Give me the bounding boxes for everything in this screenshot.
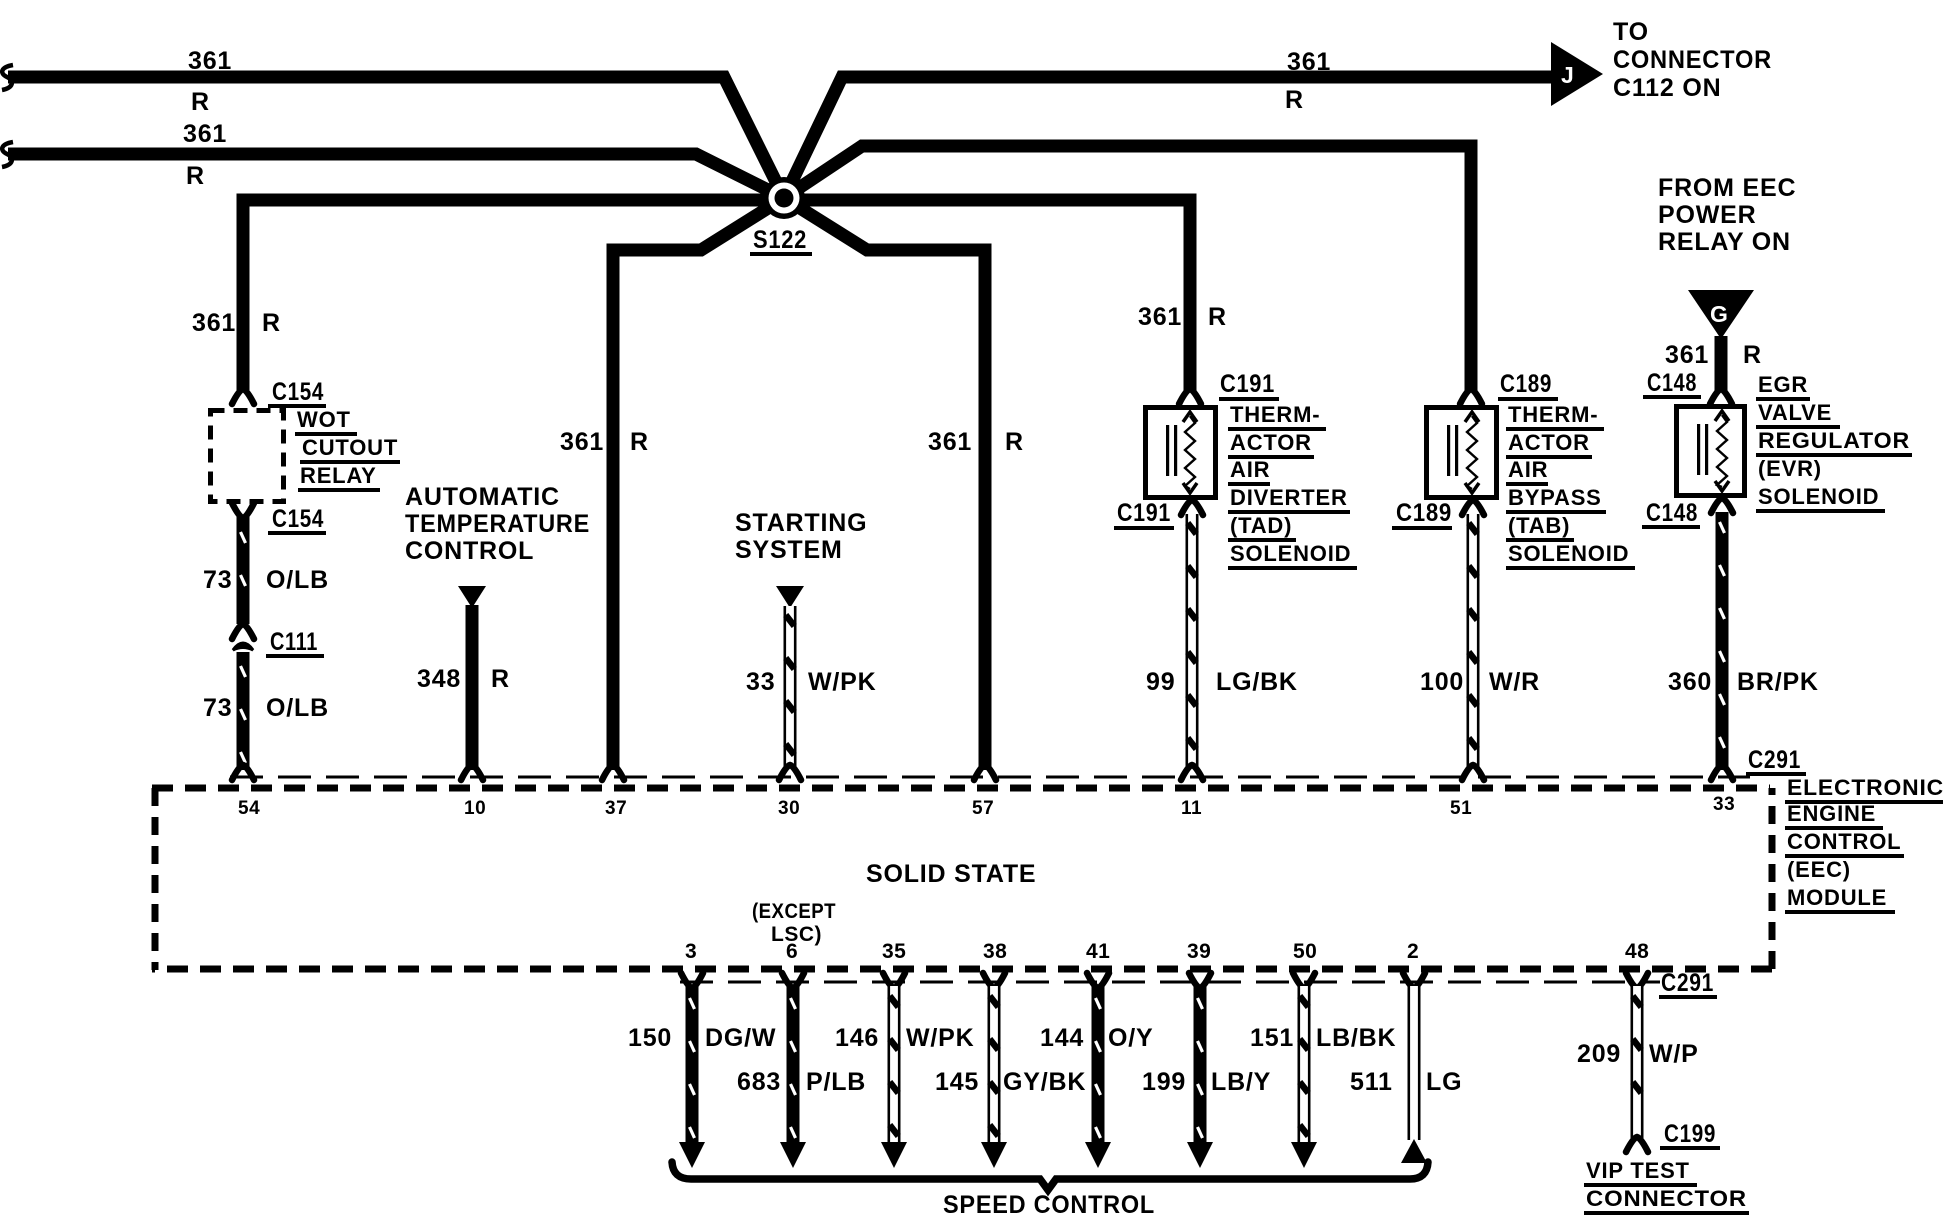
svg-text:AIR: AIR bbox=[1508, 457, 1548, 482]
connector C154 lower half (bottom of WOT relay) bbox=[232, 503, 254, 518]
svg-text:EGR: EGR bbox=[1758, 372, 1808, 397]
speed control brace bbox=[672, 1162, 1428, 1190]
svg-text:R: R bbox=[1285, 86, 1304, 114]
svg-text:R: R bbox=[262, 309, 281, 337]
svg-text:R: R bbox=[186, 162, 205, 190]
svg-text:R: R bbox=[630, 428, 649, 456]
svg-text:ACTOR: ACTOR bbox=[1230, 430, 1312, 455]
wire 361 R from S122 to WOT cutout relay bbox=[243, 200, 784, 390]
svg-text:360: 360 bbox=[1668, 668, 1712, 696]
svg-text:C148: C148 bbox=[1647, 369, 1697, 397]
svg-text:AIR: AIR bbox=[1230, 457, 1270, 482]
svg-text:30: 30 bbox=[778, 798, 800, 819]
svg-text:BYPASS: BYPASS bbox=[1508, 485, 1602, 510]
thermactor air bypass TAB solenoid box bbox=[1427, 408, 1497, 498]
connector at EEC pin 57 bbox=[974, 765, 996, 780]
svg-text:AUTOMATIC: AUTOMATIC bbox=[405, 483, 560, 511]
feed triangle from automatic temperature control bbox=[458, 586, 486, 608]
wire 361 R horizontal upper feed into splice S122 bbox=[8, 77, 784, 198]
arrow J to connector C112 bbox=[1551, 42, 1603, 106]
connector at EEC pin 35 bbox=[883, 973, 905, 988]
connector at EEC pin 38 bbox=[983, 973, 1005, 988]
EEC module boundary thin connector line (top row C291) bbox=[230, 776, 1750, 779]
svg-text:CUTOUT: CUTOUT bbox=[302, 435, 398, 460]
svg-text:361: 361 bbox=[1138, 303, 1182, 331]
EGR valve regulator EVR solenoid box bbox=[1677, 407, 1745, 496]
connector at EEC pin 2 bbox=[1403, 973, 1425, 988]
svg-text:CONTROL: CONTROL bbox=[405, 537, 534, 565]
connector at EEC pin 39 bbox=[1189, 973, 1211, 988]
svg-text:C291: C291 bbox=[1748, 746, 1801, 774]
svg-text:99: 99 bbox=[1146, 668, 1175, 696]
connector C111 (in-line) bbox=[232, 624, 254, 639]
wire 145 GY/BK from EEC pin 38 to speed control bbox=[988, 986, 1001, 1144]
power feed triangle G from EEC power relay bbox=[1688, 290, 1754, 339]
connector at EEC pin 6 bbox=[782, 973, 804, 988]
splice S122 junction dot bbox=[763, 177, 805, 219]
connector at EEC pin 54 bbox=[232, 765, 254, 780]
svg-text:C111: C111 bbox=[270, 628, 318, 656]
svg-text:361: 361 bbox=[183, 120, 227, 148]
svg-text:STARTING: STARTING bbox=[735, 509, 867, 537]
svg-text:C191: C191 bbox=[1220, 370, 1275, 398]
svg-text:150: 150 bbox=[628, 1024, 672, 1052]
wire 146 W/PK from EEC pin 35 to speed control bbox=[888, 986, 901, 1144]
svg-text:J: J bbox=[1561, 62, 1574, 88]
connector at EEC pin 51 bbox=[1462, 765, 1484, 780]
arrow end of wire 511 bbox=[1401, 1139, 1427, 1163]
wire 683 P/LB from EEC pin 6 to speed control bbox=[787, 986, 800, 1144]
connector at EEC pin 10 bbox=[461, 765, 483, 780]
svg-text:C189: C189 bbox=[1500, 370, 1552, 398]
connector C191 lower half (bottom of TAD solenoid) bbox=[1181, 500, 1203, 515]
wire 511 LG from EEC pin 2 to speed control bbox=[1408, 986, 1421, 1140]
svg-text:35: 35 bbox=[882, 940, 906, 963]
arrow end of wire 144 bbox=[1085, 1142, 1111, 1168]
svg-text:39: 39 bbox=[1187, 940, 1211, 963]
connector C154 upper half (top of WOT relay) bbox=[232, 389, 254, 404]
svg-text:O/LB: O/LB bbox=[266, 566, 329, 594]
svg-text:O/Y: O/Y bbox=[1108, 1024, 1153, 1052]
svg-text:FROM EEC: FROM EEC bbox=[1658, 174, 1796, 202]
wire 361 R from S122 to EEC pin 57 bbox=[784, 198, 985, 770]
svg-text:511: 511 bbox=[1350, 1068, 1393, 1096]
wire 361 R from S122 to EEC pin 37 bbox=[613, 198, 784, 770]
svg-text:CONTROL: CONTROL bbox=[1787, 829, 1901, 854]
svg-text:R: R bbox=[191, 88, 210, 116]
wire 73 O/LB from C111 to EEC pin 54 bbox=[237, 652, 250, 770]
svg-text:WOT: WOT bbox=[297, 407, 351, 432]
wire 361 R from S122 to connector C112 arrow bbox=[784, 77, 1551, 198]
svg-text:199: 199 bbox=[1142, 1068, 1186, 1096]
svg-text:SOLENOID: SOLENOID bbox=[1230, 541, 1351, 566]
feed triangle from starting system bbox=[776, 586, 804, 608]
svg-text:W/PK: W/PK bbox=[906, 1024, 974, 1052]
wire 150 DG/W from EEC pin 3 to speed control bbox=[686, 986, 699, 1144]
connector at EEC pin 3 bbox=[681, 973, 703, 988]
svg-text:C154: C154 bbox=[272, 505, 324, 533]
wire 209 W/P from EEC pin 48 to VIP test connector bbox=[1631, 986, 1644, 1138]
svg-text:SOLENOID: SOLENOID bbox=[1758, 484, 1879, 509]
connector at EEC pin 50 bbox=[1293, 973, 1315, 988]
wire 144 O/Y from EEC pin 41 to speed control bbox=[1092, 986, 1105, 1144]
arrow end of wire 150 bbox=[679, 1142, 705, 1168]
wire 99 LG/BK from TAD solenoid to EEC pin 11 bbox=[1186, 514, 1199, 770]
svg-text:P/LB: P/LB bbox=[806, 1068, 866, 1096]
svg-text:51: 51 bbox=[1450, 798, 1472, 819]
svg-text:209: 209 bbox=[1577, 1040, 1621, 1068]
connector at EEC pin 48 (C291) bbox=[1626, 973, 1648, 988]
svg-text:SYSTEM: SYSTEM bbox=[735, 536, 843, 564]
svg-text:R: R bbox=[1208, 303, 1227, 331]
svg-text:SOLID STATE: SOLID STATE bbox=[866, 860, 1036, 888]
wire 361 R horizontal second feed into splice S122 bbox=[8, 154, 784, 198]
wire 361 R from power relay triangle to EVR solenoid bbox=[1715, 336, 1728, 392]
connector at EEC pin 41 bbox=[1087, 973, 1109, 988]
svg-text:3: 3 bbox=[685, 940, 697, 963]
svg-text:LG: LG bbox=[1426, 1068, 1462, 1096]
svg-text:THERM-: THERM- bbox=[1230, 402, 1320, 427]
svg-text:POWER: POWER bbox=[1658, 201, 1756, 229]
svg-text:VIP TEST: VIP TEST bbox=[1586, 1158, 1690, 1183]
svg-text:C291: C291 bbox=[1661, 969, 1714, 997]
svg-text:41: 41 bbox=[1086, 940, 1110, 963]
wire 73 O/LB from WOT relay to C111 bbox=[237, 516, 250, 624]
EEC module dashed box bbox=[152, 785, 1770, 792]
WOT cutout relay dashed box bbox=[211, 411, 284, 502]
svg-text:GY/BK: GY/BK bbox=[1003, 1068, 1086, 1096]
svg-text:C154: C154 bbox=[272, 378, 324, 406]
connector C199 at VIP test connector bbox=[1626, 1137, 1648, 1152]
svg-text:6: 6 bbox=[786, 940, 798, 963]
svg-text:CONNECTOR: CONNECTOR bbox=[1613, 46, 1772, 74]
thermactor air diverter TAD solenoid box bbox=[1146, 408, 1216, 498]
svg-text:RELAY ON: RELAY ON bbox=[1658, 228, 1791, 256]
wire 360 BR/PK from EVR solenoid to EEC pin 33 bbox=[1716, 512, 1729, 770]
svg-text:W/R: W/R bbox=[1489, 668, 1540, 696]
svg-text:DG/W: DG/W bbox=[705, 1024, 776, 1052]
svg-text:ELECTRONIC: ELECTRONIC bbox=[1787, 775, 1944, 800]
svg-text:R: R bbox=[491, 665, 510, 693]
svg-text:LG/BK: LG/BK bbox=[1216, 668, 1298, 696]
svg-text:C112 ON: C112 ON bbox=[1613, 74, 1721, 102]
svg-text:361: 361 bbox=[1287, 48, 1331, 76]
svg-text:(TAB): (TAB) bbox=[1508, 513, 1570, 538]
svg-text:33: 33 bbox=[746, 668, 775, 696]
svg-text:361: 361 bbox=[188, 47, 232, 75]
svg-text:SPEED CONTROL: SPEED CONTROL bbox=[943, 1191, 1155, 1216]
svg-text:145: 145 bbox=[935, 1068, 979, 1096]
svg-text:(EXCEPT: (EXCEPT bbox=[752, 900, 836, 923]
svg-text:146: 146 bbox=[835, 1024, 879, 1052]
svg-text:VALVE: VALVE bbox=[1758, 400, 1832, 425]
arrow end of wire 145 bbox=[981, 1142, 1007, 1168]
arrow end of wire 151 bbox=[1291, 1142, 1317, 1168]
svg-text:38: 38 bbox=[983, 940, 1007, 963]
svg-text:11: 11 bbox=[1181, 798, 1202, 819]
svg-text:R: R bbox=[1005, 428, 1024, 456]
svg-text:TO: TO bbox=[1613, 18, 1649, 46]
connector at EEC pin 37 bbox=[602, 765, 624, 780]
svg-text:361: 361 bbox=[560, 428, 604, 456]
svg-text:TEMPERATURE: TEMPERATURE bbox=[405, 510, 590, 538]
svg-text:LB/Y: LB/Y bbox=[1211, 1068, 1271, 1096]
arrow end of wire 146 bbox=[881, 1142, 907, 1168]
connector at EEC pin 30 bbox=[779, 765, 801, 780]
wire 361 R from S122 to TAB solenoid bbox=[784, 146, 1471, 392]
svg-text:348: 348 bbox=[417, 665, 461, 693]
connector C148 lower half (bottom of EVR solenoid) bbox=[1711, 498, 1733, 513]
svg-text:(EVR): (EVR) bbox=[1758, 456, 1822, 481]
svg-text:151: 151 bbox=[1250, 1024, 1294, 1052]
connector at EEC pin 11 bbox=[1181, 765, 1203, 780]
svg-text:683: 683 bbox=[737, 1068, 781, 1096]
svg-text:ACTOR: ACTOR bbox=[1508, 430, 1590, 455]
svg-text:361: 361 bbox=[1665, 341, 1709, 369]
wire 100 W/R from TAB solenoid to EEC pin 51 bbox=[1467, 514, 1480, 770]
svg-text:73: 73 bbox=[203, 566, 232, 594]
svg-text:C148: C148 bbox=[1646, 499, 1698, 527]
svg-text:54: 54 bbox=[238, 798, 260, 819]
svg-text:(TAD): (TAD) bbox=[1230, 513, 1292, 538]
svg-text:2: 2 bbox=[1407, 940, 1419, 963]
svg-text:REGULATOR: REGULATOR bbox=[1758, 428, 1910, 453]
svg-text:W/PK: W/PK bbox=[808, 668, 876, 696]
svg-text:THERM-: THERM- bbox=[1508, 402, 1598, 427]
svg-text:CONNECTOR: CONNECTOR bbox=[1586, 1186, 1747, 1211]
svg-text:100: 100 bbox=[1420, 668, 1464, 696]
wire break symbol on feed wire 361 (upper left) bbox=[2, 65, 13, 90]
svg-text:144: 144 bbox=[1040, 1024, 1084, 1052]
svg-text:10: 10 bbox=[464, 798, 486, 819]
svg-text:SOLENOID: SOLENOID bbox=[1508, 541, 1629, 566]
arrow end of wire 683 bbox=[780, 1142, 806, 1168]
wire 199 LB/Y from EEC pin 39 to speed control bbox=[1194, 986, 1207, 1144]
connector C191 upper half (top of TAD solenoid) bbox=[1179, 389, 1201, 404]
wire 348 R from temperature control to EEC pin 10 bbox=[466, 605, 479, 770]
svg-text:DIVERTER: DIVERTER bbox=[1230, 485, 1348, 510]
svg-text:50: 50 bbox=[1293, 940, 1317, 963]
svg-text:BR/PK: BR/PK bbox=[1737, 668, 1819, 696]
svg-text:O/LB: O/LB bbox=[266, 694, 329, 722]
wire break symbol on feed wire 361 (lower left) bbox=[2, 142, 13, 167]
svg-text:ENGINE: ENGINE bbox=[1787, 801, 1876, 826]
connector C148 upper half (top of EVR solenoid) bbox=[1710, 389, 1732, 404]
svg-text:C199: C199 bbox=[1664, 1120, 1716, 1148]
wire 151 LB/BK from EEC pin 50 to speed control bbox=[1298, 986, 1311, 1144]
svg-text:361: 361 bbox=[192, 309, 236, 337]
svg-text:73: 73 bbox=[203, 694, 232, 722]
svg-text:33: 33 bbox=[1713, 794, 1735, 815]
svg-text:C191: C191 bbox=[1117, 499, 1171, 527]
svg-text:S122: S122 bbox=[753, 226, 807, 254]
svg-text:R: R bbox=[1743, 341, 1762, 369]
svg-text:MODULE: MODULE bbox=[1787, 885, 1887, 910]
svg-text:LB/BK: LB/BK bbox=[1316, 1024, 1396, 1052]
svg-text:G: G bbox=[1710, 301, 1728, 327]
arrow end of wire 199 bbox=[1187, 1142, 1213, 1168]
svg-text:48: 48 bbox=[1625, 940, 1649, 963]
svg-text:W/P: W/P bbox=[1649, 1040, 1699, 1068]
svg-text:37: 37 bbox=[605, 798, 627, 819]
connector C189 upper half (top of TAB solenoid) bbox=[1460, 389, 1482, 404]
wire 33 W/PK from starting system to EEC pin 30 bbox=[784, 606, 797, 770]
svg-text:361: 361 bbox=[928, 428, 972, 456]
EEC module boundary thin connector line (bottom row) bbox=[680, 981, 1660, 984]
connector at EEC pin 33 (C291) bbox=[1711, 765, 1733, 780]
svg-text:(EEC): (EEC) bbox=[1787, 857, 1851, 882]
svg-text:57: 57 bbox=[972, 798, 994, 819]
svg-text:C189: C189 bbox=[1396, 499, 1452, 527]
svg-text:RELAY: RELAY bbox=[300, 463, 377, 488]
connector C189 lower half (bottom of TAB solenoid) bbox=[1462, 500, 1484, 515]
wire 361 R from S122 to TAD solenoid bbox=[784, 200, 1190, 392]
